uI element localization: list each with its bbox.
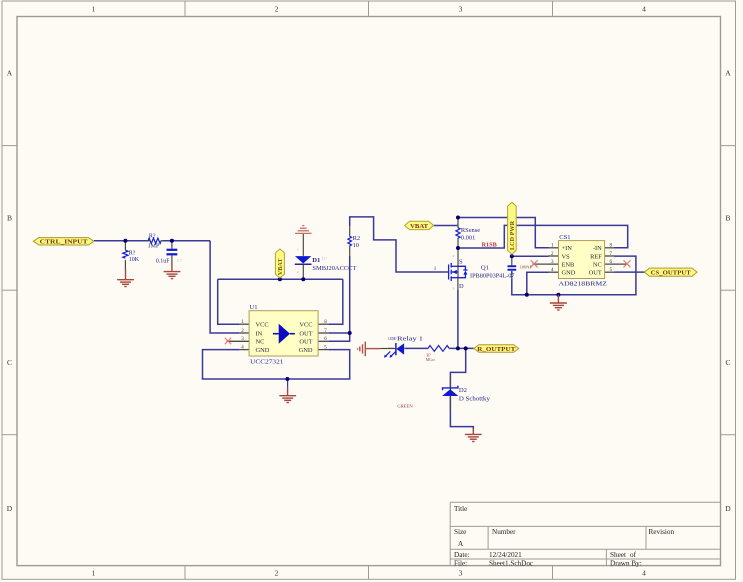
svg-text:Revision: Revision [649,528,675,536]
wire D2 anode stub [449,396,451,410]
wire VBAT port to RSense [434,225,458,227]
svg-text:3: 3 [459,569,463,578]
wire RSense top pin [457,218,459,228]
svg-text:of: of [630,551,637,559]
wire CTRL_INPUT to JMP [94,240,148,242]
svg-text:4: 4 [642,569,646,578]
svg-text:AD8218BRMZ: AD8218BRMZ [559,281,608,288]
zone ticks top/bottom [184,1,186,17]
svg-text:3: 3 [459,5,463,14]
svg-text:2: 2 [275,5,279,14]
resistor R? JMP [148,233,161,249]
CS1 pin 8 [605,247,615,249]
svg-text:Title: Title [454,505,467,513]
svg-text:R?: R? [149,233,156,239]
wire D1 anode stub [302,233,304,256]
wire LED to R [404,347,428,349]
node RSense bottom R1SB [456,246,460,250]
svg-text:R?: R? [427,354,432,358]
diode D1 TVS [295,247,357,273]
node D2 branch [464,346,468,350]
power port VBAT (vertical) [275,249,284,279]
svg-text:-IN: -IN [593,245,602,252]
wire OUT up to R2 [349,256,351,333]
svg-text:4: 4 [642,5,646,14]
svg-text:Q1: Q1 [481,265,489,272]
svg-text:Relay 1: Relay 1 [397,336,423,343]
wire R2 bottom pin [349,246,351,256]
wire R to R_OUTPUT port [449,347,474,349]
svg-text:Drawn By:: Drawn By: [610,560,642,568]
svg-text:1: 1 [297,247,299,251]
power port LCD PWR (vertical) [508,202,517,256]
wire RSense top to CS1 +IN [458,218,549,248]
resistor R? at LED [426,346,449,363]
wire Q1 drain pin [457,278,459,291]
ground under CS1 [550,295,567,310]
svg-text:G: G [510,274,514,280]
CS1 pin 3 [533,263,559,265]
node D1 on rail [301,277,305,281]
U1 pin 2 [240,332,250,334]
svg-text:+IN: +IN [562,245,573,252]
svg-text:VCC: VCC [299,322,312,329]
svg-text:Sheet: Sheet [610,551,626,559]
svg-text:0.001: 0.001 [461,235,475,242]
wire D2 branch [450,348,465,387]
wire Q1 channel through [457,266,459,277]
svg-text:RSense: RSense [461,227,480,234]
node CTRL/0.1uF tap [170,239,174,243]
wire D2 to ground [450,396,473,428]
port R_OUTPUT [474,345,519,353]
svg-text:VCC: VCC [256,322,269,329]
svg-text:A: A [7,69,13,78]
wire U1 pin6 OUT [329,333,350,341]
no-ERC marker U1 pin3 [225,338,231,345]
wire 100NF cap top stub [511,256,513,265]
svg-text:OUT: OUT [299,330,312,337]
U1 pin 8 [318,323,329,325]
svg-text:File:: File: [454,560,467,568]
svg-text:JMP: JMP [148,244,160,250]
wire GND rail under CS1 [512,256,636,295]
ground under 0.1uF [164,264,181,279]
ground under 10K [117,269,134,287]
power port VBAT (horizontal) [405,221,434,230]
svg-text:UCC27321: UCC27321 [250,359,283,366]
svg-text:U1: U1 [250,304,258,311]
U1 pin 1 [240,323,250,325]
svg-text:OUT: OUT [589,270,602,277]
wire rail to U1 pin8 [329,279,343,324]
no-ERC marker CS1 pin6 [624,260,631,267]
svg-text:A: A [458,540,464,548]
svg-text:R1SB: R1SB [482,241,497,248]
op-amp CS1 AD8218BRMZ [551,234,613,288]
node GND rail / ground stem [556,293,560,297]
svg-text:2: 2 [297,270,299,274]
wire D2 cathode stub [449,377,451,391]
ground under U1 [279,387,296,402]
wire CS1 GND pin4 [527,272,549,295]
svg-text:VBAT: VBAT [277,258,284,276]
ground above D1 (inverted) [295,226,311,234]
node VBAT port on rail [278,277,282,281]
svg-text:10: 10 [353,242,359,249]
capacitor C? 0.1uF [156,249,182,265]
svg-text:10K: 10K [129,257,140,263]
U1 pin 7 [318,332,329,334]
svg-text:D2: D2 [459,387,467,394]
svg-text:MGcr: MGcr [426,358,436,362]
wire JMP left pin [146,240,150,242]
wire Q1 drain down [457,290,459,348]
wire U1 ground stem [287,379,289,388]
node RSense top [456,216,460,220]
CS1 pin 6 [605,263,627,265]
svg-text:2: 2 [453,254,455,258]
wire 0.1uF cap bottom stub [171,255,173,264]
wire R2 top staircase to Q1 gate [350,217,449,272]
node GND rail / CS1 pin4 [525,293,529,297]
op-amp U1 UCC27321 [241,304,327,366]
wire RSense bottom pin [457,238,459,248]
capacitor 100NF [508,265,533,271]
svg-text:ENB: ENB [562,262,575,269]
U1 pin 6 [318,340,329,342]
svg-text:CS1: CS1 [559,234,570,241]
resistor RSense 0.001 [456,227,480,242]
wire JMP to corner [162,240,210,242]
svg-text:C?: C? [177,258,182,263]
svg-text:SMBJ20ACCCT: SMBJ20ACCCT [312,265,356,272]
svg-text:IN: IN [256,330,263,337]
CS1 pin 5 [605,271,615,273]
svg-text:D1: D1 [312,257,320,264]
wire U1 pin7 OUT [329,332,350,334]
wire LED cathode stub [388,347,393,349]
U1 pin 4 [240,349,250,351]
zone ticks left/right [2,145,17,147]
ground sideways at LED [358,342,381,357]
wire JMP right pin [161,240,165,242]
svg-text:D: D [725,504,731,513]
wire 10K resistor top stub [124,241,126,250]
ground under D2 branch [465,428,482,441]
svg-text:B: B [7,214,12,223]
CS1 pin 7 [605,255,615,257]
svg-text:LEDR?: LEDR? [388,336,396,341]
CS1 pin 2 [549,255,559,257]
diode D2 Schottky [442,386,491,403]
CS1 pin 1 [549,247,559,249]
svg-text:1: 1 [92,569,96,578]
wire D1 cathode stub [302,264,304,279]
svg-text:D: D [7,504,13,513]
node Q1 drain / R_OUTPUT [456,346,460,350]
svg-text:NC: NC [593,262,602,269]
svg-text:CS_OUTPUT: CS_OUTPUT [651,269,692,276]
wire down to U1 IN [210,241,240,333]
CS1 pin 4 [549,271,559,273]
wire CS1 OUT to CS_OUTPUT [615,271,645,273]
svg-text:R?: R? [129,251,136,257]
node U1 GND rail [285,377,289,381]
svg-text:R_OUTPUT: R_OUTPUT [477,346,516,353]
port CTRL_INPUT [33,238,94,246]
wire VBAT rail [218,278,343,280]
node U1 OUT junction [348,331,352,335]
resistor R? 10K [123,250,140,263]
U1 pin 3 [227,340,250,342]
node CTRL/10K tap [123,239,127,243]
svg-text:1: 1 [92,5,96,14]
svg-text:Date:: Date: [454,551,470,559]
wire LED cathode pin [380,348,396,350]
svg-text:GND: GND [299,347,313,354]
svg-text:NC: NC [256,339,265,346]
svg-text:IPB80P03P4L-07: IPB80P03P4L-07 [470,272,515,279]
svg-text:Sheet1.SchDoc: Sheet1.SchDoc [489,560,533,568]
svg-text:CTRL_INPUT: CTRL_INPUT [40,239,89,246]
resistor R2 10 [348,235,360,249]
svg-text:LCD PWR: LCD PWR [509,220,516,250]
node LCD PWR / VS [510,254,514,258]
svg-text:C: C [725,358,730,367]
svg-text:S: S [459,258,463,265]
svg-text:2: 2 [275,569,279,578]
U1 pin 5 [318,349,329,351]
svg-text:OUT: OUT [299,339,312,346]
wire R1SB net to CS1 -IN [458,225,628,248]
svg-text:Size: Size [454,528,466,536]
wire R2 top pin [349,226,351,236]
wire Q1 source pin [457,248,459,266]
transistor Q1 PMOS [434,254,515,290]
svg-text:12/24/2021: 12/24/2021 [489,551,522,559]
svg-text:GREEN: GREEN [397,404,413,409]
svg-text:D: D [459,283,464,290]
port CS_OUTPUT [645,268,698,276]
svg-text:VBAT: VBAT [410,223,428,230]
svg-text:R2: R2 [353,235,360,242]
wire LCD PWR node to CS1 VS [512,255,549,257]
svg-text:GND: GND [562,270,576,277]
no-ERC marker CS1 pin3 [531,260,538,267]
svg-text:B: B [725,214,730,223]
title block [450,502,720,565]
svg-text:GND: GND [256,347,270,354]
wire 10K resistor bottom stub [124,260,126,269]
svg-text:C: C [7,358,12,367]
wire U1 pin4 GND [203,350,350,379]
svg-text:REF: REF [590,253,602,260]
svg-text:Number: Number [492,528,516,536]
wire 0.1uF cap top stub [171,241,173,249]
svg-text:VS: VS [562,253,571,260]
svg-text:0.1uF: 0.1uF [156,258,171,264]
svg-text:A: A [725,69,731,78]
svg-text:D Schottky: D Schottky [459,396,491,403]
svg-text:D?: D? [322,256,327,261]
LED Relay 1 [384,336,423,358]
svg-text:3: 3 [453,287,455,291]
wire rail to U1 pin1 [218,279,240,324]
